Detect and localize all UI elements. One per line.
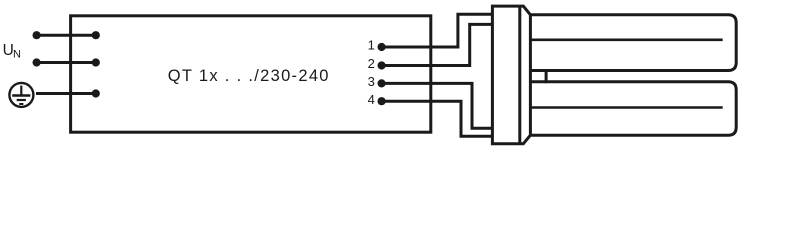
node L terminal dot bbox=[33, 31, 41, 39]
svg-text:1: 1 bbox=[368, 38, 375, 53]
svg-text:2: 2 bbox=[368, 56, 375, 71]
wire 4 bbox=[382, 101, 493, 136]
node 1 dot bbox=[378, 43, 386, 51]
lamp tube top center line bbox=[530, 38, 722, 41]
ground (protective earth) circle bbox=[9, 83, 33, 107]
node 2 dot bbox=[378, 61, 386, 69]
node N terminal dot bbox=[33, 58, 41, 66]
node 3 dot bbox=[378, 79, 386, 87]
wire PE bbox=[36, 92, 96, 95]
wire 2 bbox=[382, 24, 493, 65]
lamp tube top outline bbox=[530, 15, 736, 71]
lamp base outline bbox=[492, 6, 530, 144]
lamp base inner line bbox=[518, 6, 521, 144]
node 4 dot bbox=[378, 97, 386, 105]
wire N bbox=[37, 61, 96, 64]
svg-text:QT 1x . . ./230-240: QT 1x . . ./230-240 bbox=[168, 67, 330, 85]
svg-text:N: N bbox=[13, 49, 21, 61]
node PE box dot bbox=[92, 89, 100, 97]
lamp tube bottom outline bbox=[530, 82, 736, 136]
lamp tube web bbox=[545, 69, 548, 83]
wire 3 bbox=[382, 83, 493, 128]
ballast box QT 1x.../230-240 bbox=[71, 16, 431, 132]
wire 1 bbox=[382, 14, 493, 47]
wire L bbox=[37, 34, 96, 37]
ground symbol marks bbox=[12, 86, 30, 104]
svg-text:4: 4 bbox=[368, 92, 375, 107]
node L box dot bbox=[92, 31, 100, 39]
lamp tube bottom center line bbox=[530, 106, 722, 109]
node N box dot bbox=[92, 58, 100, 66]
svg-text:3: 3 bbox=[368, 74, 375, 89]
